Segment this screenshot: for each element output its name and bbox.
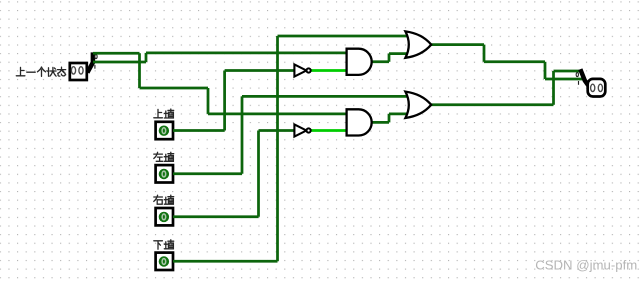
wire bit1 to AND1 input (146, 52, 347, 55)
wire 左墙 to OR2 input (242, 95, 408, 98)
wire OR1 to splitter leg1 (545, 78, 583, 81)
input pin 上墙 value 0 (156, 122, 173, 139)
wire 右墙 riser (257, 131, 260, 217)
wire AND1 output (372, 60, 389, 63)
wire 左墙 output (173, 172, 242, 175)
splitter S2 (576, 69, 590, 87)
wire OR2 to splitter leg0 (554, 70, 584, 73)
wire OR2 output (431, 103, 553, 106)
wire 下墙 riser (276, 36, 279, 261)
input pin 上一个状态 value 0 0 (70, 63, 87, 80)
wire bit0 horizontal y88 (140, 87, 209, 90)
input pin 左墙 value 0 (156, 165, 173, 182)
wire OR1 drop x484 (483, 45, 486, 62)
wire AND2 to OR2 input (389, 113, 408, 116)
inverter U1 (NOT) (294, 64, 310, 76)
wire bit0 riser (138, 53, 141, 88)
wire NOT2 output (1) (311, 129, 347, 132)
label 右墙 (154, 195, 174, 204)
wire AND2 step up (388, 114, 391, 123)
AND gate U3 (AND) (347, 49, 372, 75)
OR gate U5 (OR) (405, 31, 431, 57)
wire NOT1 output (1) (311, 69, 347, 72)
wire AND1 step up (388, 54, 391, 62)
wire bit1 jog up (145, 53, 148, 62)
wire OR1 horizontal y62 (484, 60, 545, 63)
wire OR1 drop x545 (544, 62, 547, 79)
OR gate U6 (OR) (405, 92, 431, 118)
wire 上墙 to NOT1 (225, 69, 295, 72)
wire bit0 to AND2 input (208, 113, 347, 116)
label 上一个状态 (16, 67, 65, 76)
AND gate U4 (AND) (347, 109, 372, 135)
wire OR1 output (431, 43, 484, 46)
wire 右墙 to NOT2 (259, 129, 295, 132)
label 上墙 (154, 109, 174, 118)
wire 左墙 riser (241, 96, 244, 173)
wire AND2 output (372, 121, 389, 124)
output pin value 0 0 (588, 79, 606, 97)
wire 上墙 output (173, 129, 225, 132)
wire 下墙 output (173, 260, 278, 263)
input pin 下墙 value 0 (156, 253, 173, 270)
splitter S1 (87, 52, 97, 72)
inverter U2 (NOT) (294, 124, 310, 136)
svg-text:CSDN @jmu-pfm: CSDN @jmu-pfm (535, 258, 637, 273)
label 下墙 (154, 240, 174, 249)
wire bit1 leg segment (93, 61, 146, 64)
wire 右墙 output (173, 215, 259, 218)
wire bit0 riser x208 (207, 88, 210, 114)
wire bit0 leg segment (93, 52, 140, 55)
wire AND1 to OR1 input (389, 52, 408, 55)
wire OR2 riser x553 (552, 71, 555, 105)
input pin 右墙 value 0 (156, 208, 173, 225)
label 左墙 (154, 152, 174, 161)
wire 下墙 to OR1 input (278, 35, 409, 38)
wire 上墙 riser (223, 71, 226, 131)
